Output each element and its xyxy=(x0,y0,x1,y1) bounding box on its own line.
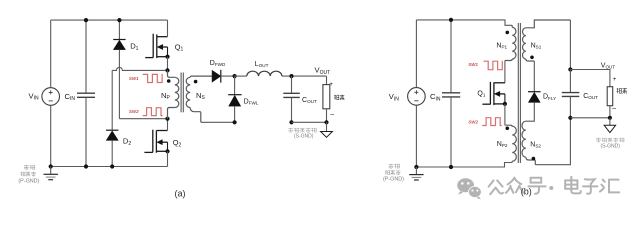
label COUT (b) xyxy=(583,93,598,100)
wire: CIN (b) branch lower xyxy=(450,97,452,167)
svg-text:Q1: Q1 xyxy=(477,90,485,97)
diode DFWD xyxy=(212,70,235,83)
ground P-GND (b) xyxy=(409,167,423,180)
wire: Q2 drain up to node B xyxy=(167,119,169,131)
wire: Q1 drain to top rail xyxy=(167,20,169,37)
svg-text:Q1: Q1 xyxy=(175,42,184,52)
wire: circuit (b) top rail from Vin+ to NP1 step corner xyxy=(416,20,512,25)
svg-text:+: + xyxy=(613,76,617,83)
svg-text:(S-GND): (S-GND) xyxy=(601,144,621,150)
junction: bottom rail / CIN (b) xyxy=(449,165,453,169)
transformer T2 secondary winding NS2 xyxy=(522,121,535,165)
ground S-GND (b) xyxy=(604,118,615,133)
wire: CIN (a) branch upper xyxy=(85,20,87,93)
wire: circuit (a) left rail lower segment (Vin- lead to ground rail) xyxy=(50,105,52,166)
label VIN (a) xyxy=(29,91,39,101)
transformer T1 (a) primary winding NP xyxy=(168,70,179,118)
junction: Q1 source xyxy=(165,55,169,59)
phase dot NS2 xyxy=(532,157,536,161)
svg-text:−: − xyxy=(330,110,335,119)
wire: Q1 (b) source down to NP2 top lead xyxy=(504,104,506,125)
label LOUT xyxy=(255,61,269,68)
wire: circuit (b) left rail lower segment xyxy=(415,105,417,167)
label SW1 (a) xyxy=(129,76,139,81)
svg-text:VIN: VIN xyxy=(389,92,399,102)
voltage source VIN (a) xyxy=(42,88,60,106)
svg-text:(a): (a) xyxy=(175,189,186,199)
capacitor COUT (a) xyxy=(283,93,300,97)
label VOUT (a) xyxy=(315,66,331,76)
waveform SW1 (b) square wave xyxy=(484,61,503,70)
watermark text 汇 xyxy=(600,180,619,193)
voltage source VIN (b) xyxy=(408,88,426,106)
junction: load bottom / S-GND (a) xyxy=(324,120,328,124)
wire: node B horizontal from D1 to transformer / Q2 drain xyxy=(119,118,167,120)
wire: NS1 bottom lead down to DFLY cathode xyxy=(533,61,535,92)
label VOUT (b) xyxy=(601,63,616,70)
junction: COUT top node (b) xyxy=(568,67,572,71)
phase dot NS (a) xyxy=(194,80,198,84)
svg-text:(S-GND): (S-GND) xyxy=(294,134,314,140)
wire: COUT upper lead (b) xyxy=(569,70,571,93)
watermark text 电 xyxy=(565,177,581,194)
junction: node B xyxy=(165,117,169,121)
svg-text:(P-GND): (P-GND) xyxy=(18,179,39,185)
capacitor COUT (b) xyxy=(562,93,580,97)
junction: top rail / D1 xyxy=(117,18,121,22)
label - (b load) xyxy=(612,104,617,113)
junction: left rail / bottom rail / P-GND xyxy=(49,164,53,168)
svg-text:VOUT: VOUT xyxy=(601,63,616,70)
watermark text 子 xyxy=(583,179,597,194)
wire: D1 anode lead down to node B (passes under node-A hop) xyxy=(118,50,120,119)
label NP1 xyxy=(496,42,507,49)
svg-text:DFWD: DFWD xyxy=(210,60,226,67)
label - (a load) xyxy=(330,110,335,119)
label 负载 (b) xyxy=(617,88,627,94)
wire: Q2 arrow lead to source xyxy=(167,142,169,151)
wire: Q1 (b) arrow lead to source xyxy=(504,94,506,104)
svg-text:−: − xyxy=(612,104,617,113)
wire: VOUT corner down to load (a) xyxy=(326,76,328,85)
label SW2 (a) xyxy=(129,109,139,114)
label Q1 (b) xyxy=(477,90,485,97)
wire: load (b) bottom lead xyxy=(609,106,611,118)
label + (b load) xyxy=(613,76,617,83)
wire: DFLY anode down to NS2 top lead xyxy=(526,102,534,121)
wire: COUT upper lead xyxy=(291,76,293,93)
svg-text:+: + xyxy=(329,81,333,88)
caption (b) xyxy=(521,187,532,197)
wire: D2 anode lead to bottom rail xyxy=(111,140,113,166)
wire: D1 cathode lead from top rail xyxy=(118,20,120,39)
transformer T2 secondary winding NS1 xyxy=(523,20,571,61)
label SW2 (b) xyxy=(468,120,478,125)
diode D2 xyxy=(106,130,118,140)
label + (a load) xyxy=(329,81,333,88)
label NP2 xyxy=(497,141,508,148)
label DFWD xyxy=(210,60,226,67)
wire: circuit (a) bottom ground rail xyxy=(51,166,168,168)
label NS (a) xyxy=(196,91,205,101)
wire: circuit (a) left rail upper segment (Vin+ lead) xyxy=(50,20,52,88)
wire: VOUT rail to load corner (b) xyxy=(570,70,610,87)
label CIN (a) xyxy=(65,92,76,102)
waveform SW1 (a) square wave xyxy=(143,74,163,82)
watermark middle dot xyxy=(549,186,553,190)
waveform SW2 (a) square wave xyxy=(143,108,163,116)
wire: LOUT right lead to VOUT corner xyxy=(282,75,327,77)
wire: DFWL cathode lead xyxy=(234,76,236,95)
inductor LOUT xyxy=(247,71,282,76)
wire: LOUT left lead xyxy=(235,75,247,77)
wire: circuit (a) top rail from Vin+ to Q1 drain corner xyxy=(51,19,168,21)
phase dot NS1 xyxy=(530,56,534,60)
svg-text:SW1: SW1 xyxy=(468,62,478,67)
label Q2 (a) xyxy=(173,138,182,148)
wire: COUT lower lead (b) xyxy=(569,97,571,118)
transformer core (b) xyxy=(518,23,520,163)
wire: output common rail to load bottom (b) xyxy=(570,117,610,119)
label Q1 (a) xyxy=(175,42,184,52)
label 初级 侧接地 (P-GND) text (b) xyxy=(389,164,400,169)
transformer T1 (a) secondary winding NS xyxy=(186,76,234,122)
svg-text:LOUT: LOUT xyxy=(255,61,269,68)
svg-text:DFWL: DFWL xyxy=(244,98,259,105)
wire: node A horizontal with hop over D1 wire xyxy=(112,67,167,70)
svg-text:NP2: NP2 xyxy=(497,141,508,148)
transformer T2 primary winding NP1 xyxy=(505,25,516,60)
label D1 xyxy=(130,42,138,52)
transistor Q2 (low-side MOSFET) xyxy=(144,130,167,153)
label 负载 (a) xyxy=(334,95,344,100)
junction: secondary top rail / COUT xyxy=(289,74,293,78)
ground S-GND (a) xyxy=(321,122,333,137)
svg-text:NS1: NS1 xyxy=(531,43,542,50)
transistor Q1 (high-side MOSFET) xyxy=(145,34,167,58)
wire: Q2 source to bottom rail xyxy=(167,151,169,166)
wire: CIN (a) branch lower xyxy=(85,98,87,167)
wire: COUT lower lead xyxy=(291,98,293,123)
svg-text:SW1: SW1 xyxy=(129,76,139,81)
ground P-GND (a) xyxy=(44,167,58,180)
label VIN (b) xyxy=(389,92,399,102)
caption (a) xyxy=(175,189,186,199)
label DFLY xyxy=(543,94,556,101)
wire: Q1 source down to node A xyxy=(167,57,169,71)
wire: NP1 bottom lead down to Q1 drain xyxy=(504,61,506,83)
wire: DFWL anode to secondary bottom rail xyxy=(234,106,236,122)
junction: Q2 source xyxy=(165,149,169,153)
junction: load bottom / S-GND (b) xyxy=(608,116,612,120)
phase dot NP (a) xyxy=(167,79,171,83)
label 初级 侧接地 (P-GND) text (a) xyxy=(24,165,35,170)
label SW1 (b) xyxy=(468,62,478,67)
label D2 xyxy=(123,137,131,147)
watermark text 众 xyxy=(506,178,523,193)
svg-text:CIN: CIN xyxy=(65,92,76,102)
svg-text:Q2: Q2 xyxy=(173,138,182,148)
label NS2 xyxy=(530,141,541,148)
waveform SW2 (b) square wave xyxy=(482,118,502,126)
junction: output common / COUT (b) xyxy=(568,116,572,120)
svg-text:SW2: SW2 xyxy=(468,120,478,125)
svg-text:NP1: NP1 xyxy=(496,42,507,49)
label CIN (b) xyxy=(430,92,441,102)
svg-text:SW2: SW2 xyxy=(129,109,139,114)
transformer core (a) xyxy=(181,73,183,113)
svg-text:D2: D2 xyxy=(123,137,131,147)
svg-text:COUT: COUT xyxy=(583,93,598,100)
svg-text:(b): (b) xyxy=(521,187,532,197)
junction: node A xyxy=(165,68,169,72)
junction: secondary bottom rail / DFWL xyxy=(233,120,237,124)
watermark text 号 xyxy=(528,178,545,194)
load resistor (b) xyxy=(607,87,613,106)
watermark wechat icon big bubble xyxy=(457,178,474,194)
wire: NS2 bottom lead return to output common xyxy=(535,118,570,165)
svg-text:DFLY: DFLY xyxy=(543,94,556,101)
diode DFWL xyxy=(228,95,241,106)
svg-text:VIN: VIN xyxy=(29,91,39,101)
svg-text:D1: D1 xyxy=(130,42,138,52)
phase dot NP1 xyxy=(506,31,510,35)
junction: top rail / CIN (b) xyxy=(449,18,453,22)
wire: D2 cathode lead from node A corner xyxy=(111,70,113,130)
junction: DFWD cathode / DFWL / LOUT node xyxy=(233,74,237,78)
junction: top rail / CIN (a) xyxy=(84,18,88,22)
watermark text 公 xyxy=(489,180,503,194)
diode DFLY xyxy=(528,92,541,103)
diode D1 xyxy=(113,40,125,50)
svg-text:CIN: CIN xyxy=(430,92,441,102)
wire: secondary top rail down to COUT node (b) xyxy=(569,20,571,70)
junction: left rail / bottom rail / P-GND (b) xyxy=(414,165,418,169)
watermark wechat icon small bubble xyxy=(469,186,482,199)
wire: secondary bottom rail (a) xyxy=(292,121,327,123)
svg-text:COUT: COUT xyxy=(302,97,317,104)
svg-text:NS2: NS2 xyxy=(530,141,541,148)
wire: circuit (b) bottom ground rail to NP2 step corner xyxy=(416,163,512,168)
wire: circuit (b) left rail upper segment xyxy=(415,20,417,88)
junction: bottom rail / CIN (a) xyxy=(84,164,88,168)
junction: secondary bottom rail / COUT (a) xyxy=(289,120,293,124)
capacitor CIN (b) xyxy=(442,93,460,97)
label DFWL xyxy=(244,98,259,105)
transformer T2 primary winding NP2 xyxy=(505,125,516,162)
transistor Q1 (b MOSFET) xyxy=(482,82,505,105)
junction: Q1 (b) source xyxy=(503,102,507,106)
label NP (a) xyxy=(161,91,170,101)
svg-text:NS: NS xyxy=(196,91,205,101)
wire: CIN (b) branch upper xyxy=(450,20,452,93)
load resistor (a) xyxy=(323,85,330,109)
wire: Q1 arrow lead to source xyxy=(167,47,169,57)
phase dot NP2 xyxy=(506,127,510,131)
svg-text:(P-GND): (P-GND) xyxy=(383,176,404,182)
svg-text:NP: NP xyxy=(161,91,170,101)
svg-text:VOUT: VOUT xyxy=(315,66,331,76)
label 次级侧接地 (a) xyxy=(288,128,316,133)
wire: load (a) bottom lead xyxy=(326,109,328,123)
junction: bottom rail / D2 xyxy=(110,164,114,168)
label 次级侧接地 (b) xyxy=(596,138,624,143)
label NS1 xyxy=(531,43,542,50)
label COUT (a) xyxy=(302,97,317,104)
capacitor CIN (a) xyxy=(77,93,95,97)
